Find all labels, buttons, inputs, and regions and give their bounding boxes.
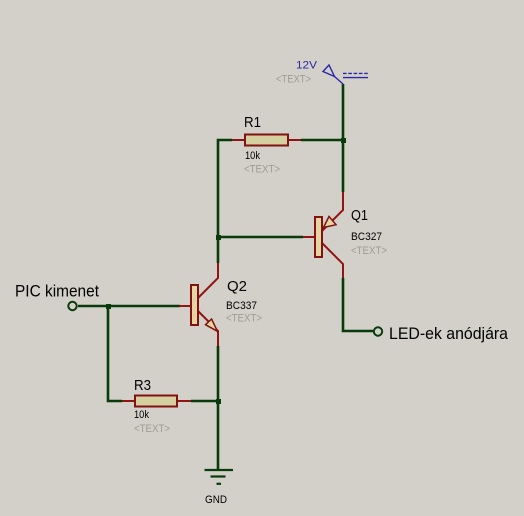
wire PIC input bbox=[78, 305, 180, 308]
svg-text:<TEXT>: <TEXT> bbox=[351, 245, 387, 257]
Q1 emitter pin bbox=[322, 192, 343, 231]
wire branch down to R3 bbox=[108, 306, 122, 401]
Q2 body bar bbox=[191, 285, 198, 325]
Q1 emitter arrow bbox=[324, 217, 337, 228]
transistor Q2 (NPN BC337) bbox=[179, 263, 218, 346]
Q1 collector pin bbox=[322, 243, 343, 278]
wire Q2 emitter to GND bbox=[217, 346, 220, 470]
pin LED-ek anodjara bbox=[374, 327, 382, 335]
svg-text:R1: R1 bbox=[244, 114, 261, 131]
svg-text:R3: R3 bbox=[134, 377, 151, 394]
junction 12V/R1 bbox=[341, 138, 346, 143]
svg-text:GND: GND bbox=[205, 494, 227, 506]
junction base node bbox=[216, 235, 221, 240]
svg-text:<TEXT>: <TEXT> bbox=[276, 73, 311, 85]
wire R1 left to corner bbox=[218, 140, 232, 263]
pin PIC kimenet bbox=[68, 302, 76, 310]
svg-text:PIC kimenet: PIC kimenet bbox=[15, 282, 99, 301]
wire 12V vertical bbox=[342, 84, 345, 192]
Q2 emitter pin bbox=[198, 311, 218, 346]
svg-text:Q2: Q2 bbox=[227, 278, 247, 295]
svg-text:10k: 10k bbox=[134, 409, 149, 421]
Q1 base pin bbox=[303, 236, 315, 238]
resistor R3 bbox=[122, 400, 135, 402]
junction R3/emitter bbox=[216, 399, 221, 404]
svg-text:<TEXT>: <TEXT> bbox=[134, 423, 170, 435]
Q1 body bar bbox=[315, 217, 322, 257]
junction PIC/R3 bbox=[106, 304, 111, 309]
wire R3 right to junction bbox=[191, 400, 218, 403]
svg-text:<TEXT>: <TEXT> bbox=[244, 164, 280, 176]
transistor Q1 (PNP BC327) bbox=[303, 192, 343, 278]
wire R1 right to junction bbox=[301, 139, 344, 142]
Q2 base pin bbox=[179, 305, 191, 307]
svg-text:12V: 12V bbox=[296, 60, 318, 72]
svg-text:BC337: BC337 bbox=[226, 300, 257, 312]
svg-text:<TEXT>: <TEXT> bbox=[226, 313, 262, 325]
svg-text:LED-ek anódjára: LED-ek anódjára bbox=[389, 324, 509, 343]
svg-text:BC327: BC327 bbox=[351, 231, 382, 243]
svg-text:10k: 10k bbox=[245, 150, 260, 162]
supply +12V symbol bbox=[323, 65, 368, 84]
wire Q1 collector down bbox=[343, 278, 373, 331]
Q2 emitter arrow bbox=[206, 319, 218, 331]
wire base node horizontal bbox=[218, 236, 303, 239]
Q2 collector pin bbox=[198, 263, 218, 298]
svg-text:Q1: Q1 bbox=[351, 207, 368, 224]
ground bbox=[205, 470, 234, 484]
resistor R1 bbox=[232, 139, 245, 141]
